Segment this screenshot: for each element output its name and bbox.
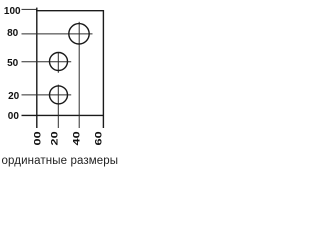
svg-text:00: 00 (8, 111, 20, 122)
axis label 20 bottom (50, 131, 60, 145)
ordinate line 20 / vertical center line of bottom hole (57, 85, 59, 128)
svg-text:20: 20 (8, 91, 20, 102)
leader line 100 (22, 8, 38, 10)
part outline right edge / ordinate line 60 (102, 10, 104, 128)
ordinate line 40 / vertical center line of top hole (78, 22, 80, 128)
part outline left edge / extension line (36, 8, 38, 128)
svg-text:80: 80 (7, 28, 19, 39)
part outline bottom edge / leader line 00 (22, 114, 104, 116)
axis label 00 bottom (33, 131, 43, 145)
part outline top edge (36, 10, 103, 12)
axis label 60 bottom (94, 131, 104, 145)
svg-text:100: 100 (4, 6, 21, 17)
leader line 20 / center line of bottom hole (22, 94, 72, 96)
leader line 80 / center line of top hole (22, 33, 93, 35)
svg-text:00: 00 (33, 131, 43, 145)
leader line 50 / center line of middle hole (22, 61, 72, 63)
svg-text:50: 50 (7, 58, 19, 69)
hole circle bottom (50, 86, 68, 104)
vertical center line of middle hole (57, 52, 59, 73)
svg-text:20: 20 (50, 131, 60, 145)
hole circle middle (50, 53, 68, 71)
axis label 40 bottom (72, 131, 82, 145)
hole circle top (69, 24, 89, 44)
svg-text:40: 40 (72, 131, 82, 145)
svg-text:ординатные размеры: ординатные размеры (2, 155, 119, 167)
svg-text:60: 60 (94, 131, 104, 145)
